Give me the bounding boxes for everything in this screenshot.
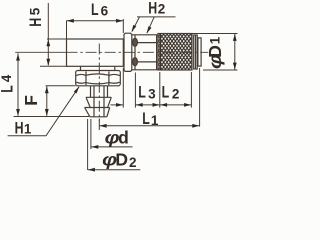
L4 top arrow: [16, 54, 20, 61]
hex nut outline: [76, 71, 121, 86]
label L6: [91, 2, 109, 20]
knurl crosshatch: [159, 34, 192, 70]
label L4: [0, 74, 17, 93]
stem tube outer: [132, 35, 158, 70]
svg-text:F: F: [21, 95, 41, 106]
L2 extension line: [190, 72, 192, 108]
svg-text:H: H: [148, 0, 157, 18]
phid extension line: [90, 119, 92, 149]
label phid: [105, 128, 129, 149]
washer: [194, 35, 198, 69]
centerline vertical: [98, 44, 100, 122]
phiD2 extension line: [87, 119, 89, 170]
stem bore lines: [132, 43, 158, 62]
end cap: [198, 38, 201, 66]
svg-text:H: H: [15, 120, 24, 138]
hex nut top chamfer arcs: [76, 74, 120, 76]
L6 left arrow: [67, 19, 74, 23]
collar flange: [124, 33, 132, 71]
L2 right arrow: [184, 103, 191, 107]
svg-text:D: D: [115, 150, 128, 170]
H5 bottom arrow: [46, 59, 50, 66]
label phiD1: [205, 36, 226, 69]
label phiD2: [102, 150, 136, 171]
hex nut bottom chamfer arcs: [76, 82, 120, 84]
L1 right arrow: [192, 124, 199, 128]
svg-text:d: d: [118, 128, 129, 148]
phid arrow: [91, 145, 98, 149]
H2 arrow 2: [147, 26, 152, 33]
svg-text:L: L: [0, 85, 17, 93]
barb bore lines: [94, 86, 104, 117]
label L1: [142, 111, 159, 129]
L6 dimension line: [67, 20, 124, 22]
o-ring flange line: [134, 35, 136, 70]
svg-text:1: 1: [151, 113, 159, 128]
L3 right arrow: [153, 103, 160, 107]
phiD1 dimension line: [234, 34, 236, 71]
svg-text:L: L: [142, 111, 150, 129]
phiD1 top arrow: [233, 34, 237, 41]
block body: [67, 39, 124, 66]
L3 left arrow: [136, 103, 143, 107]
svg-text:1: 1: [207, 36, 222, 44]
svg-text:2: 2: [158, 1, 166, 16]
H5 extension lines: [40, 39, 67, 66]
H2 leader: [132, 17, 176, 33]
svg-text:2: 2: [129, 155, 137, 170]
barb stem outer walls: [91, 86, 108, 98]
neck between block and nut: [81, 66, 115, 70]
washer inner line: [195, 35, 197, 69]
F dimension line: [46, 86, 48, 116]
label L2: [162, 84, 180, 102]
svg-text:L: L: [162, 84, 170, 102]
L3 dimension line: [135, 104, 159, 106]
hex nut facet lines: [86, 72, 109, 86]
phiD2 arrow: [88, 168, 95, 172]
F extension line: [46, 85, 76, 87]
svg-text:L: L: [138, 84, 146, 102]
stub dimension line: [111, 104, 124, 106]
barb ring 2: [85, 108, 110, 117]
svg-text:D: D: [205, 45, 225, 58]
svg-text:5: 5: [27, 7, 42, 15]
L4 dimension line: [17, 53, 19, 116]
svg-text:H: H: [27, 18, 45, 27]
phid leader line: [91, 146, 132, 148]
L2 dimension line: [160, 104, 192, 106]
L4 bottom arrow: [16, 109, 20, 116]
phiD1 bottom arrow: [233, 63, 237, 70]
o-ring lower: [133, 58, 138, 66]
label H2: [148, 0, 165, 18]
label L3: [138, 84, 156, 102]
phiD1 extension lines: [193, 34, 238, 71]
H5 top arrow: [46, 39, 50, 46]
svg-text:L: L: [91, 2, 99, 20]
L1 extension lines: [99, 68, 199, 130]
knurl left flange lines: [157, 34, 161, 71]
svg-text:1: 1: [24, 121, 32, 136]
L1 left arrow: [100, 124, 107, 128]
L2 left arrow: [160, 103, 167, 107]
centerline horizontal: [15, 51, 66, 53]
stub dim right arrow: [116, 103, 123, 107]
L3 extension lines: [123, 68, 160, 108]
F bottom arrow: [45, 109, 49, 116]
barb ring 1: [86, 97, 111, 107]
svg-text:3: 3: [148, 87, 156, 102]
knurled nut outline: [158, 34, 192, 71]
H1 leader: [8, 87, 79, 136]
L1 dimension line: [99, 125, 199, 127]
label F: [21, 95, 41, 106]
H2 arrow 1: [131, 25, 136, 32]
F top arrow: [45, 86, 49, 93]
H1 arrow: [74, 86, 80, 93]
phiD2 leader line: [88, 169, 140, 171]
L6 right arrow: [116, 19, 123, 23]
svg-text:4: 4: [0, 74, 14, 82]
L4/F bottom extension line: [14, 116, 90, 118]
svg-text:2: 2: [172, 87, 180, 102]
svg-text:6: 6: [101, 4, 109, 19]
H5 dimension line: [47, 3, 49, 65]
label H1: [15, 120, 32, 138]
L6 extension lines: [67, 19, 124, 39]
o-ring upper: [133, 38, 138, 46]
label H5: [27, 7, 45, 27]
